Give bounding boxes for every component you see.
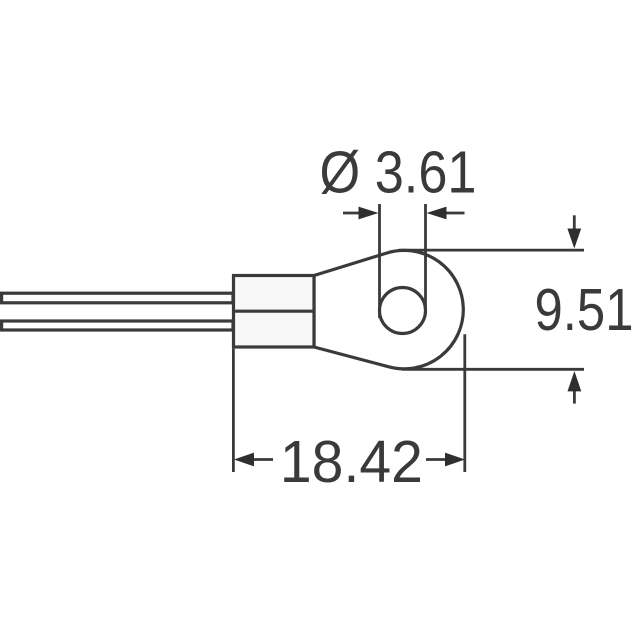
svg-text:Ø 3.61: Ø 3.61 (320, 140, 477, 206)
svg-text:18.42: 18.42 (280, 429, 423, 495)
svg-text:9.51: 9.51 (535, 277, 634, 343)
